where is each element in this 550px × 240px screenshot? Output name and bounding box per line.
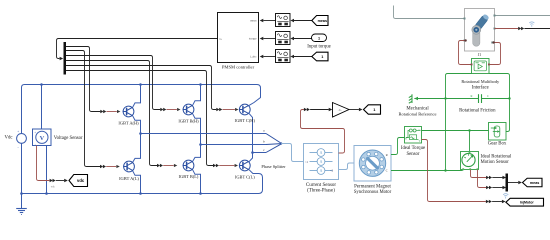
wire: converter to controller i_abc [263,56,275,58]
wire: joint q to multibody interface [459,41,472,65]
wire: source to converter torque [294,38,312,40]
ammeter element 2 [310,158,333,166]
svg-text:~2: ~2 [330,169,334,173]
svg-text:C: C [487,94,489,98]
connection label icon [529,22,534,27]
wire: shaft line with rotational friction [414,98,478,100]
wire: PS gate A(L) [106,166,116,168]
svg-text:PMSM controller: PMSM controller [222,65,255,70]
converter PS-Simulink (w) [486,176,489,180]
joint J1 (revolute) [465,9,495,52]
sensor Current Sensor (Three-Phase) [304,144,339,180]
junction A emitter [139,192,142,195]
ground (electrical reference) [16,209,27,215]
junction A collector [139,83,142,86]
converter PS-Simulink (currents) [304,108,307,112]
wire: PS current measurement [301,110,345,154]
wire: gate signal A(L) [66,51,100,167]
svg-text:IGBT C(H): IGBT C(H) [235,118,256,123]
svg-text:torque: torque [249,37,257,41]
wire: PS signal voltage sensor output [37,146,50,181]
svg-text:~1: ~1 [305,160,309,164]
wire: voltage sensor + to DC+ rail [41,85,43,130]
wire: PS gate A(H) [107,111,117,113]
svg-text:-: - [35,142,36,146]
wire: torque sensor C to gear box [422,130,489,132]
gear box [489,123,507,141]
wire: gate signal A(H) [66,47,100,112]
junction node a [139,132,142,135]
svg-text:C: C [386,169,388,173]
gain block [333,103,350,118]
svg-text:Synchronous Motor: Synchronous Motor [354,190,392,195]
svg-text:vdc: vdc [77,178,85,183]
wire: voltage sensor - to DC- rail [46,146,48,194]
wire: joint t from multibody interface [489,43,501,65]
junction node c [251,151,254,154]
wire: shaft tap to motion sensor [469,131,471,152]
junction on DC+ rail [40,83,43,86]
svg-text:Voltage Sensor: Voltage Sensor [54,136,83,141]
svg-text:(Three-Phase): (Three-Phase) [307,189,335,194]
wire: torque sensor T to InjMotor [422,140,486,202]
wire: PS speed w [471,170,487,178]
junction B emitter [199,192,202,195]
wire: interface left to reference/ground net [446,74,472,171]
mux measurements [506,174,509,192]
wire: joint sensor output [495,28,519,30]
svg-text:i_abc: i_abc [250,55,257,59]
transistor B(L) [183,160,194,171]
svg-text:Gear Box: Gear Box [488,141,507,146]
wire: motor R to torque sensor [391,138,405,155]
svg-text:meas: meas [318,19,327,23]
svg-text:Rotational Reference: Rotational Reference [398,111,436,116]
svg-text:Permanent Magnet: Permanent Magnet [354,184,391,189]
motor Permanent Magnet Synchronous Motor [354,146,391,182]
interface Rotational Multibody Interface [472,59,490,74]
wire: phase b to splitter [201,144,267,146]
svg-text:A: A [320,160,323,164]
converter Simulink-PS gate C(H) [216,108,219,112]
from tag meas [312,16,328,26]
junction on DC- rail [45,192,48,195]
converter Simulink-PS input meas [276,14,291,27]
wire: gain to goto 1 [349,109,359,111]
converter PS-Simulink (torque) [486,200,489,204]
junction shaft right [508,97,510,99]
converter PS-Simulink (vdc) [50,179,53,183]
wire: ground net to motion sensor case [446,169,464,171]
junction ground net at shaft [444,97,446,99]
converter Simulink-PS gate B(H) [160,108,163,112]
wire: PS gate B(L) [163,165,174,167]
junction B collector [199,83,202,86]
wire: converter to controller meas [263,20,275,22]
wire: joint F frame out [495,15,550,17]
goto tag vdc [69,175,88,187]
wire: joint B frame (to world) [394,6,465,19]
wire: IGBT A(L) emitter to DC- [132,170,140,193]
wire: phase a node to IGBT A(L) collector [132,134,140,163]
svg-text:IGBT B(L): IGBT B(L) [179,174,199,179]
svg-text:+: + [34,130,36,134]
wire: PS gate C(H) [223,109,235,111]
svg-text:InjMotor: InjMotor [520,200,534,204]
svg-text:Motion Sensor: Motion Sensor [481,160,510,165]
junction motor C net [444,169,446,171]
goto tag 1 (currents) [364,105,381,114]
svg-text:A: A [320,169,323,173]
wire: phase a to splitter [141,133,267,135]
wire: IGBT B(H) collector to DC+ [192,85,200,106]
wire: PS gate C(L) [219,165,234,167]
wire: IGBT B(H) emitter to phase b node [192,113,200,144]
svg-text:meas: meas [530,181,539,185]
wire: gate signal B(L) [66,61,157,166]
svg-text:Vdc: Vdc [5,136,13,141]
svg-text:1: 1 [318,36,320,40]
inport 1 Input torque [312,34,327,42]
source Vdc (DC voltage source) [17,134,27,144]
converter PS-Simulink (angle) [486,186,489,190]
junction DC- rail left [20,192,23,195]
wire: gate signal C(L) [66,71,213,166]
wire: mux to goto meas [508,182,518,184]
wire: gear box to shaft/interface net [489,74,510,132]
svg-text:Current Sensor: Current Sensor [306,183,336,188]
ammeter element 1 [310,149,333,157]
svg-text:Phase Splitter: Phase Splitter [261,164,286,169]
svg-text:Interface: Interface [472,85,489,90]
controller PMSM controller [218,13,259,63]
wire: IGBT B(L) emitter to DC- [192,169,200,193]
wire: DC- bottom rail [22,143,263,209]
wire: to gain [310,109,329,111]
svg-text:-K-: -K- [338,108,342,112]
svg-text:V: V [40,135,45,142]
wire: PS gate B(H) [167,109,177,111]
converter Simulink-PS input torque [276,32,291,45]
transistor A(H) [123,106,134,117]
transistor C(H) [239,104,250,115]
svg-text:IGBT A(H): IGBT A(H) [118,121,139,126]
wire: gate signal C(H) [66,66,216,110]
wire: source to converter meas [294,20,312,22]
svg-text:Ideal Torque: Ideal Torque [401,146,425,151]
wire: phase c to splitter [253,152,267,154]
wire: DC+ top rail [22,85,261,135]
wire: motor C to ground net [391,170,446,172]
converter Simulink-PS input i_abc [276,50,291,63]
svg-text:R: R [471,94,473,98]
svg-text:+: + [17,130,19,134]
svg-text:J1: J1 [478,53,481,57]
wire: splitter output to current sensor [281,144,303,162]
sensor Ideal Torque Sensor [405,127,422,144]
goto tag InjMotor [506,198,544,206]
wire: phase b node to IGBT B(L) collector [192,145,200,162]
sensor Voltage Sensor [33,129,52,146]
svg-text:Rotational Multibody: Rotational Multibody [461,79,500,84]
rotational friction symbol [479,94,482,103]
mechanical rotational reference [414,97,418,101]
svg-text:C: C [419,129,421,132]
wire: PS angle [478,170,487,188]
converter Simulink-PS gate A(L) [100,165,103,169]
svg-text:Sensor: Sensor [406,152,419,157]
wire: IGBT A(H) collector to DC+ [132,85,140,108]
sensor Ideal Rotational Motion Sensor [461,152,479,170]
converter Simulink-PS gate B(L) [157,164,160,168]
wire: converter to controller torque [263,38,275,40]
junction node b [199,143,202,146]
wire: controller G output to gate demux [57,39,218,59]
demux gate signals [64,42,67,75]
junction to motion sensor [468,129,470,131]
wire: source to converter i_abc [294,56,312,58]
svg-text:Ideal Rotational: Ideal Rotational [481,154,512,159]
phase splitter [266,134,281,153]
converter Simulink-PS gate C(L) [213,164,216,168]
converter Simulink-PS gate A(H) [100,110,103,114]
transistor B(H) [183,104,194,115]
wire: gate signal B(H) [66,56,160,110]
wire: IGBT C(H) emitter to phase c node and C(L) collector [249,113,253,162]
svg-text:IGBT C(L): IGBT C(L) [235,175,255,180]
from tag 1 [312,52,328,61]
svg-text:A: A [320,151,323,155]
svg-text:IGBT A(L): IGBT A(L) [119,176,139,181]
svg-text:IGBT B(H): IGBT B(H) [178,119,199,124]
goto tag meas (motor) [523,178,543,187]
svg-text:meas: meas [250,19,257,23]
svg-text:Rotational Friction: Rotational Friction [459,108,496,113]
connection label icon [503,194,508,199]
wire: IGBT A(H) emitter to phase a node [132,115,140,133]
svg-text:1: 1 [321,55,323,59]
ammeter element 3 [310,167,333,175]
wire: current sensor to motor [339,163,355,170]
transistor A(L) [124,161,135,172]
converter PS-Simulink (joint) [518,27,521,31]
wire: vdc signal to goto [56,180,64,182]
transistor C(L) [239,160,250,171]
svg-text:R: R [405,138,407,141]
svg-text:b: b [263,140,265,144]
svg-text:Input torque: Input torque [307,44,331,49]
